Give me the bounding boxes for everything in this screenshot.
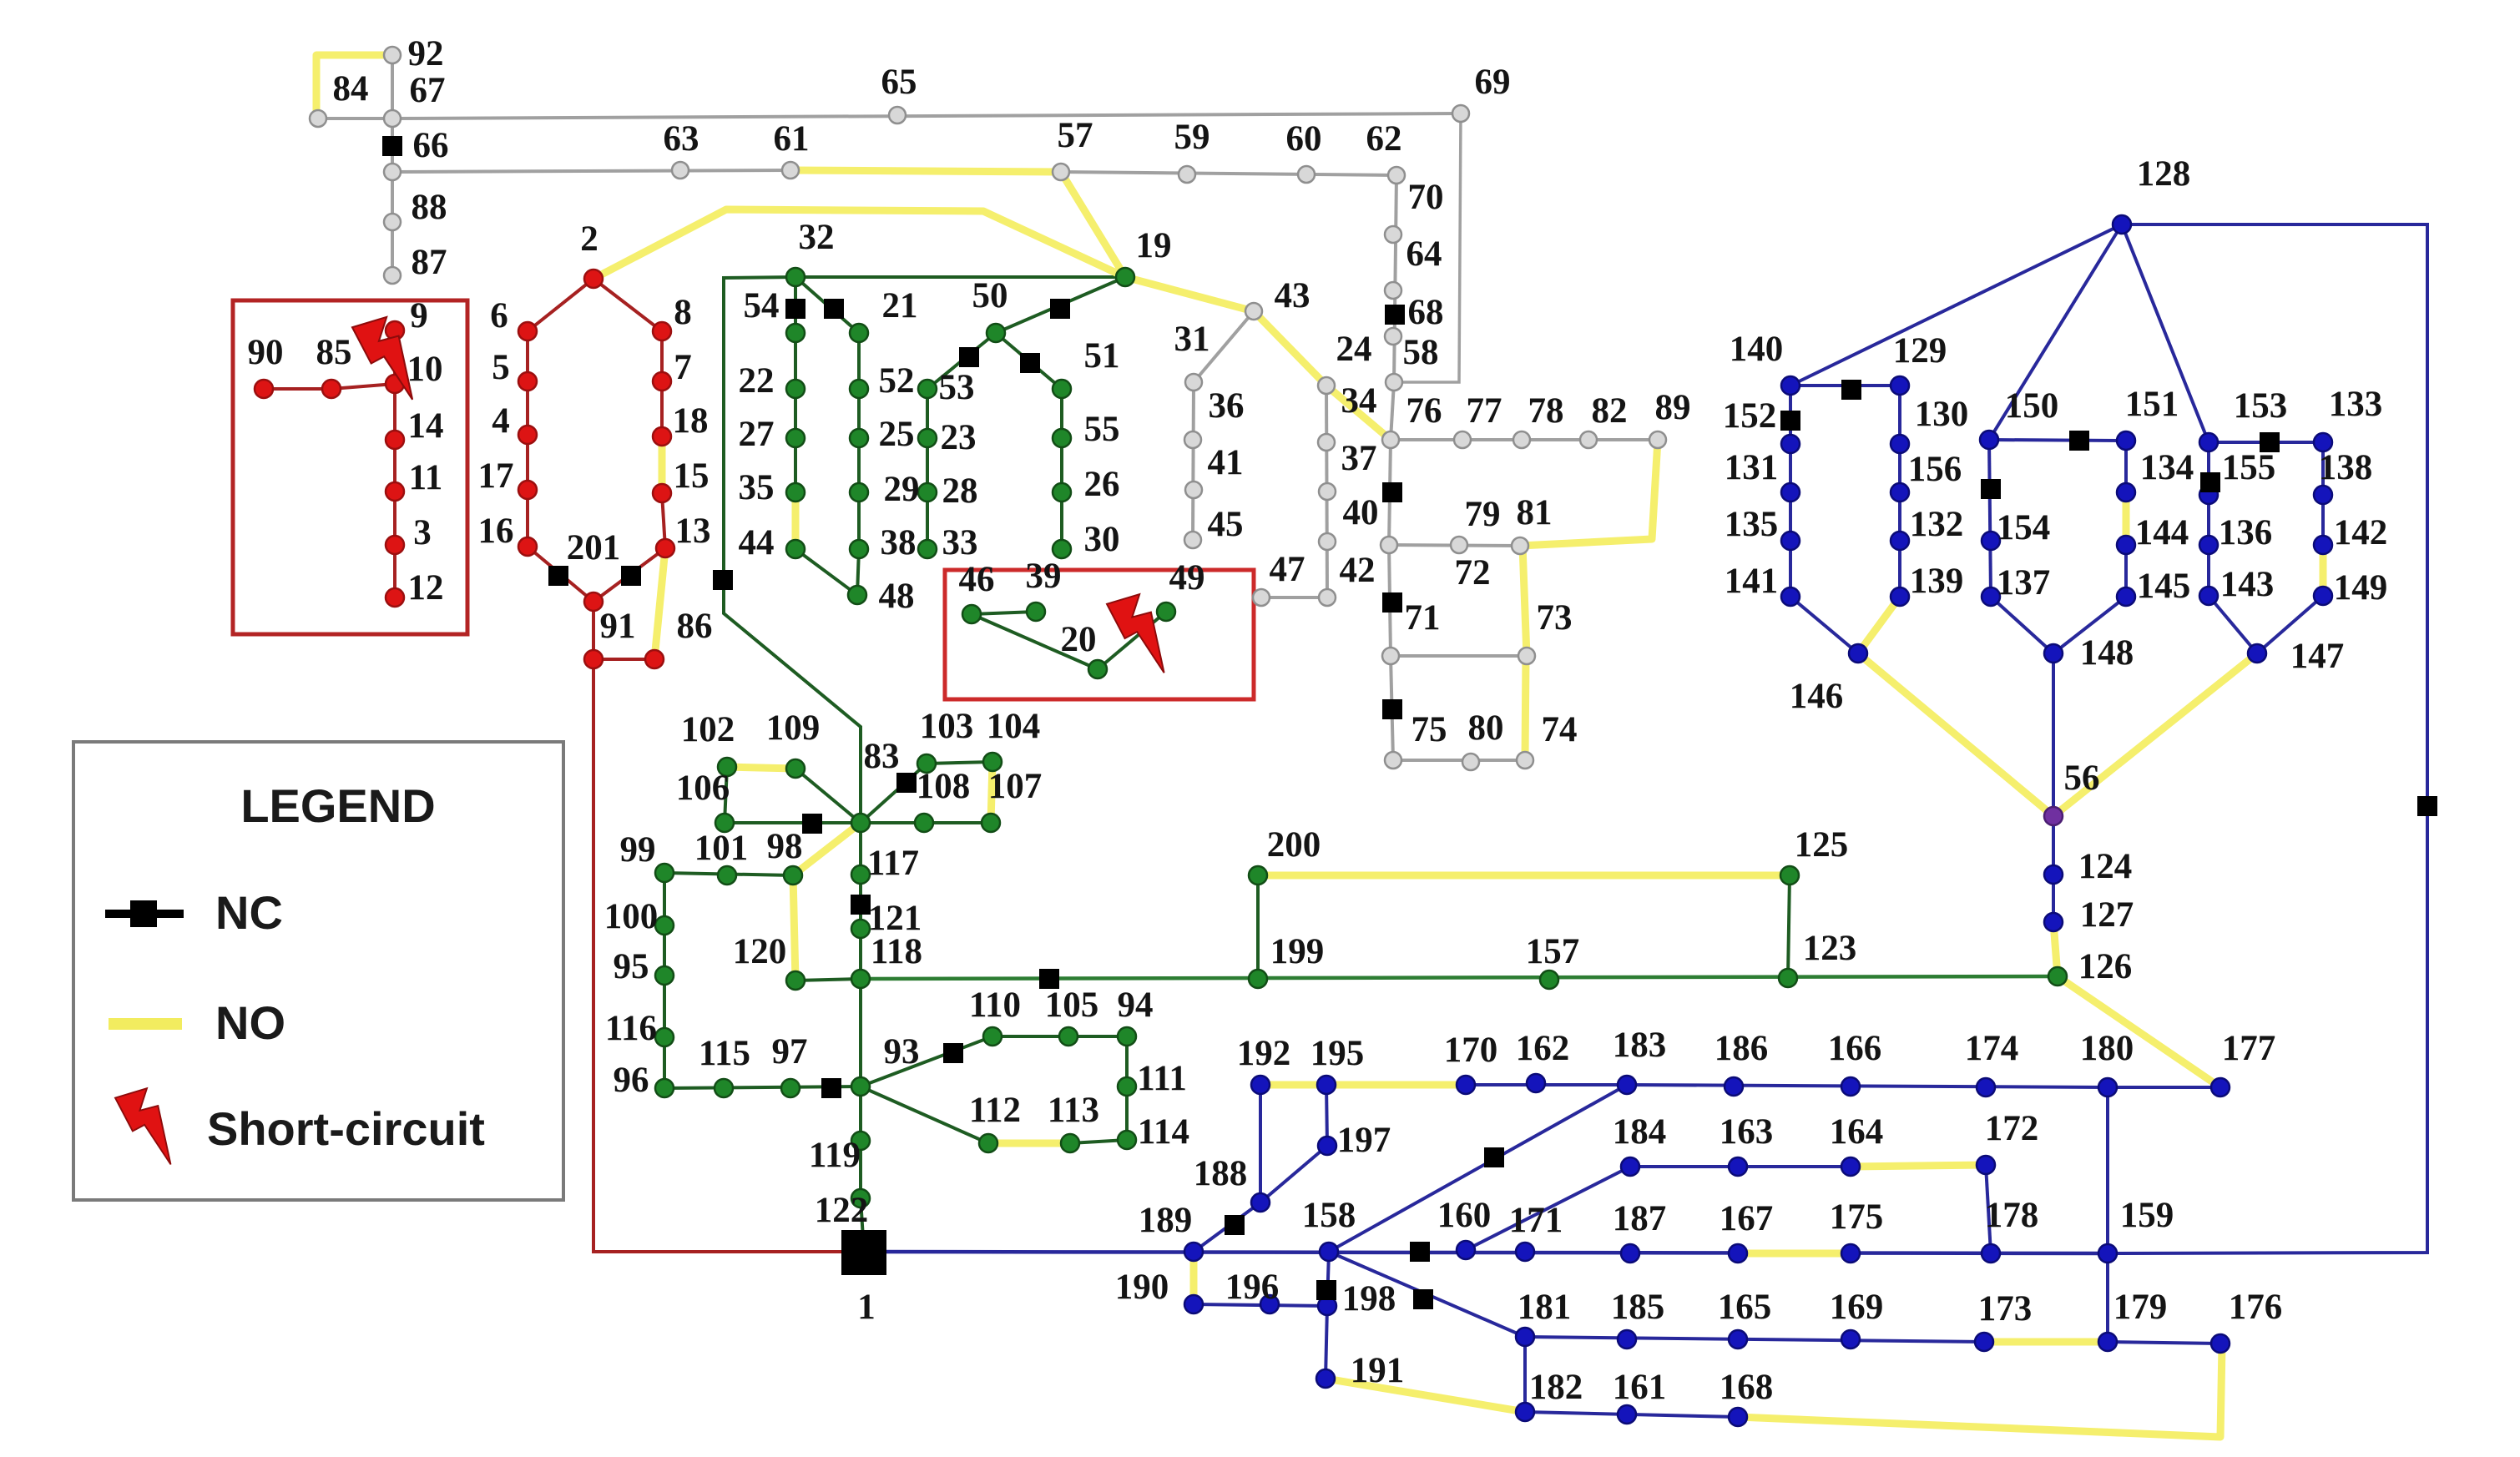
node 6: [518, 322, 537, 340]
wire 2-6: [528, 279, 593, 331]
wire 56-124: [2052, 816, 2055, 875]
node 27: [786, 429, 805, 447]
wire NO tie: [1326, 1081, 1466, 1089]
node 191: [1316, 1369, 1335, 1388]
wire 15-13: [662, 493, 665, 548]
node 65: [889, 107, 906, 124]
svg-text:17: 17: [478, 456, 514, 496]
wire 151-134: [2124, 441, 2128, 492]
wire 159-179: [2106, 1253, 2109, 1342]
wire 110-94: [992, 1035, 1127, 1038]
svg-text:200: 200: [1267, 825, 1321, 865]
node 133: [2314, 433, 2332, 451]
wire NO tie: [659, 436, 666, 493]
node 168: [1729, 1408, 1747, 1426]
NC 37: [1382, 482, 1402, 502]
node 73: [1518, 648, 1535, 664]
svg-text:116: 116: [605, 1009, 657, 1048]
svg-text:139: 139: [1910, 562, 1964, 601]
node 180: [2098, 1078, 2117, 1097]
wire 62-58: [1394, 175, 1396, 382]
wire 120-118: [795, 979, 861, 981]
svg-text:32: 32: [799, 218, 835, 257]
svg-text:66: 66: [413, 126, 449, 165]
wire 57-62: [1061, 172, 1396, 175]
svg-text:183: 183: [1613, 1026, 1667, 1065]
wire NO tie: [1851, 1165, 1986, 1167]
svg-text:20: 20: [1061, 620, 1097, 659]
svg-text:15: 15: [674, 456, 710, 496]
svg-text:150: 150: [2005, 386, 2059, 426]
node 51: [1053, 380, 1071, 398]
node 124: [2044, 865, 2063, 884]
wire NO tie: [1326, 1379, 1525, 1412]
wire 75-74: [1393, 759, 1525, 762]
short-circuit zone box 2: [945, 570, 1254, 699]
wire 91-91b: [593, 658, 654, 661]
node 46: [962, 605, 981, 623]
wire NO tie: [1061, 172, 1125, 277]
svg-text:99: 99: [620, 830, 656, 870]
node 91: [584, 650, 603, 668]
node 185: [1618, 1330, 1636, 1349]
svg-text:79: 79: [1465, 495, 1501, 534]
node 126: [2048, 967, 2067, 986]
node 52: [850, 380, 868, 398]
svg-text:122: 122: [815, 1191, 869, 1230]
wire 181-182: [1523, 1337, 1527, 1412]
node 117: [851, 865, 870, 884]
wire hub-108: [861, 821, 924, 824]
wire 188-189: [1194, 1202, 1260, 1252]
node 192: [1251, 1076, 1270, 1094]
wire 149-147: [2257, 596, 2323, 653]
node n68b: [1385, 328, 1401, 345]
svg-text:169: 169: [1830, 1288, 1884, 1327]
svg-text:80: 80: [1468, 708, 1504, 748]
wire 50-51: [996, 333, 1062, 389]
wire 67-92: [391, 55, 394, 118]
wire 138-142: [2321, 495, 2325, 545]
wire 32-21: [795, 277, 859, 333]
wire a1-35: [794, 333, 797, 492]
svg-text:163: 163: [1720, 1112, 1774, 1152]
svg-text:62: 62: [1366, 119, 1402, 159]
node 34: [1318, 434, 1335, 451]
node 189: [1184, 1243, 1203, 1261]
node 35: [786, 483, 805, 502]
node 3: [386, 536, 404, 554]
NC 188-189: [1225, 1215, 1245, 1235]
wire 200-199: [1256, 875, 1260, 979]
node 56: [2044, 807, 2063, 825]
node 84: [310, 110, 326, 127]
wire 67-69: [392, 113, 1461, 118]
svg-text:59: 59: [1174, 118, 1210, 157]
node 183: [1618, 1076, 1636, 1094]
svg-text:6: 6: [490, 296, 508, 335]
svg-text:162: 162: [1516, 1029, 1570, 1068]
node 38: [850, 540, 868, 558]
svg-text:63: 63: [664, 119, 699, 159]
node 199: [1249, 970, 1267, 988]
node 88: [384, 214, 401, 230]
svg-text:196: 196: [1225, 1268, 1280, 1307]
svg-text:Short-circuit: Short-circuit: [207, 1102, 485, 1155]
wire 103-104: [927, 762, 992, 764]
node 200: [1249, 866, 1267, 885]
svg-text:87: 87: [412, 243, 447, 282]
wire 84-67: [318, 117, 392, 120]
svg-text:123: 123: [1803, 929, 1857, 968]
wire 6-16: [526, 331, 529, 547]
wire 8-18: [660, 331, 664, 436]
svg-text:74: 74: [1542, 710, 1578, 749]
node 181: [1516, 1328, 1534, 1346]
node hub: [851, 814, 870, 832]
svg-text:43: 43: [1275, 276, 1311, 315]
wire 170-183: [1466, 1083, 1627, 1086]
svg-text:186: 186: [1715, 1029, 1769, 1068]
wire: [861, 1198, 864, 1252]
node 99: [655, 864, 674, 882]
node 57: [1053, 164, 1069, 180]
NC 158-183: [1484, 1147, 1504, 1167]
svg-text:84: 84: [333, 69, 369, 108]
svg-text:168: 168: [1720, 1368, 1774, 1407]
svg-text:124: 124: [2078, 847, 2133, 886]
node 138: [2314, 486, 2332, 504]
wire NO tie: [727, 767, 795, 769]
node 61: [782, 162, 799, 179]
wire: [724, 277, 861, 823]
wire 13-201v: [593, 548, 665, 602]
svg-text:107: 107: [988, 767, 1043, 806]
wire 150-137: [1989, 440, 1991, 597]
NC 128-159: [2417, 796, 2437, 816]
NC 66: [382, 136, 402, 156]
svg-text:86: 86: [677, 607, 713, 646]
svg-text:110: 110: [969, 986, 1021, 1025]
svg-text:177: 177: [2222, 1029, 2276, 1068]
svg-text:182: 182: [1529, 1368, 1583, 1407]
wire 9-12: [393, 330, 396, 597]
wire 153j-133: [2209, 441, 2323, 444]
node 36: [1184, 431, 1201, 448]
svg-text:149: 149: [2334, 568, 2388, 608]
wire 144-145: [2124, 545, 2128, 597]
node 153j: [2199, 433, 2218, 451]
node 167: [1729, 1244, 1747, 1263]
svg-text:154: 154: [1997, 508, 2051, 547]
wire 124-127: [2052, 875, 2055, 922]
svg-text:LEGEND: LEGEND: [240, 779, 435, 832]
NC 155: [2200, 472, 2220, 492]
wire 184-164: [1630, 1165, 1851, 1168]
node 70: [1385, 226, 1401, 243]
wire 32-a1: [794, 277, 797, 333]
svg-text:184: 184: [1613, 1112, 1667, 1152]
node 196: [1260, 1295, 1279, 1313]
svg-text:82: 82: [1592, 391, 1628, 431]
svg-text:103: 103: [920, 707, 974, 746]
wire 198-191: [1326, 1306, 1327, 1379]
svg-text:44: 44: [739, 523, 775, 562]
node m1: [2199, 486, 2218, 504]
node 150: [1980, 431, 1998, 449]
node 118: [851, 970, 870, 988]
node 108: [915, 814, 933, 832]
node 48: [848, 586, 866, 604]
svg-text:104: 104: [987, 707, 1041, 746]
wire 38-48: [857, 549, 859, 595]
svg-text:21: 21: [882, 286, 918, 325]
wire 93-110: [861, 1036, 992, 1086]
node 135: [1781, 532, 1800, 550]
wire 197-195: [1326, 1085, 1327, 1146]
svg-text:19: 19: [1136, 226, 1172, 265]
wire 158-198: [1327, 1252, 1329, 1306]
svg-text:23: 23: [941, 418, 977, 457]
node 97: [781, 1079, 800, 1097]
svg-text:112: 112: [969, 1091, 1021, 1130]
node 78: [1513, 431, 1530, 448]
wire NO tie: [991, 762, 992, 823]
svg-text:175: 175: [1830, 1197, 1884, 1237]
node 107: [982, 814, 1000, 832]
wire 96-93: [664, 1086, 861, 1088]
node 67: [384, 110, 401, 127]
node 143: [2199, 587, 2218, 605]
wire NO tie: [2320, 545, 2327, 596]
node 156: [1891, 483, 1909, 502]
node 31: [1185, 374, 1202, 391]
wire 46-20: [972, 614, 1098, 669]
svg-text:195: 195: [1311, 1034, 1365, 1073]
node 175: [1841, 1244, 1860, 1263]
NC 86: [713, 570, 733, 590]
svg-text:188: 188: [1194, 1154, 1248, 1193]
NC 13-201: [621, 566, 641, 586]
svg-text:51: 51: [1084, 336, 1120, 376]
svg-text:70: 70: [1408, 178, 1444, 217]
node 76: [1382, 431, 1399, 448]
svg-text:134: 134: [2140, 448, 2194, 487]
svg-text:132: 132: [1910, 505, 1964, 544]
node 187: [1621, 1244, 1639, 1263]
node 142: [2314, 536, 2332, 554]
node 45: [1184, 532, 1201, 548]
node 149: [2314, 587, 2332, 605]
node 163: [1729, 1157, 1747, 1176]
node 112: [979, 1134, 997, 1152]
NC 118-199: [1039, 969, 1059, 989]
node 114: [1118, 1131, 1136, 1149]
wire 143-147: [2209, 596, 2257, 653]
node 129: [1891, 376, 1909, 395]
svg-text:89: 89: [1655, 388, 1691, 427]
node 8: [653, 322, 671, 340]
wire 43-31: [1194, 311, 1254, 382]
svg-text:4: 4: [492, 401, 510, 441]
node 41: [1185, 481, 1202, 498]
svg-text:199: 199: [1270, 932, 1325, 971]
svg-text:40: 40: [1343, 493, 1379, 532]
wire 51-30: [1060, 389, 1063, 549]
NC 140-129: [1841, 380, 1861, 400]
svg-text:198: 198: [1342, 1279, 1396, 1318]
svg-text:7: 7: [674, 348, 692, 387]
wire NO tie: [316, 55, 392, 117]
wire 106-hub: [725, 821, 861, 824]
node 19: [1116, 268, 1134, 286]
svg-text:12: 12: [408, 568, 444, 608]
wire 140-141: [1789, 386, 1792, 597]
svg-text:37: 37: [1341, 439, 1377, 478]
wire 192-188: [1259, 1085, 1262, 1202]
node 55: [1053, 429, 1071, 447]
legend NO symbol: [109, 1018, 182, 1030]
svg-text:170: 170: [1444, 1031, 1498, 1070]
svg-text:64: 64: [1406, 234, 1442, 274]
svg-text:120: 120: [733, 932, 787, 971]
svg-text:152: 152: [1723, 396, 1777, 436]
node 93: [851, 1077, 870, 1096]
wire 180-159: [2106, 1087, 2109, 1253]
node 1 (substation): [841, 1230, 886, 1275]
svg-text:8: 8: [674, 293, 692, 332]
wire NO tie: [1525, 656, 1526, 760]
node 44: [786, 540, 805, 558]
wire NO tie: [1520, 440, 1658, 546]
node L1: [1781, 435, 1800, 453]
svg-text:159: 159: [2120, 1196, 2174, 1235]
svg-text:133: 133: [2329, 385, 2383, 424]
svg-text:13: 13: [675, 512, 711, 551]
svg-text:50: 50: [972, 276, 1008, 315]
svg-text:114: 114: [1138, 1112, 1189, 1152]
svg-text:33: 33: [942, 523, 978, 562]
svg-text:102: 102: [681, 710, 735, 749]
node 161: [1618, 1405, 1636, 1424]
wire 160-184: [1466, 1167, 1630, 1250]
NC 97-93: [821, 1078, 841, 1098]
wire 20-49: [1098, 612, 1166, 669]
node 17: [518, 481, 537, 499]
svg-text:146: 146: [1790, 677, 1844, 716]
svg-text:27: 27: [739, 415, 775, 454]
node 109: [786, 759, 805, 778]
svg-text:10: 10: [407, 350, 443, 389]
svg-text:91: 91: [600, 607, 636, 646]
wire 117-93: [859, 875, 862, 1086]
svg-text:156: 156: [1908, 450, 1962, 489]
wire 46-39: [972, 612, 1036, 614]
node 130: [1891, 435, 1909, 453]
node 91b: [645, 650, 664, 668]
NC 16-201: [548, 566, 568, 586]
wire NO tie: [1738, 1345, 2222, 1437]
svg-text:73: 73: [1537, 598, 1573, 638]
svg-text:68: 68: [1408, 293, 1444, 332]
svg-text:147: 147: [2290, 637, 2345, 676]
node 136: [2199, 536, 2218, 554]
node 172: [1977, 1156, 1995, 1174]
node 96: [655, 1079, 674, 1097]
NC 158-160: [1410, 1242, 1430, 1262]
node 11: [386, 482, 404, 501]
svg-text:49: 49: [1169, 558, 1205, 597]
node 71: [1382, 648, 1399, 664]
wire 201v-91: [592, 602, 595, 659]
node 119: [851, 1132, 870, 1150]
svg-text:47: 47: [1270, 550, 1305, 589]
node 50: [987, 324, 1005, 342]
NC 153-133: [2260, 432, 2280, 452]
node 176: [2211, 1334, 2230, 1353]
wire 128-150: [1989, 224, 2122, 440]
wire hub-117: [859, 823, 862, 875]
wire 76-89: [1391, 438, 1658, 441]
node 79j: [1381, 537, 1397, 553]
svg-text:1: 1: [857, 1288, 876, 1327]
node 49: [1157, 602, 1175, 621]
node 115: [715, 1079, 733, 1097]
node 169: [1841, 1330, 1860, 1349]
svg-text:88: 88: [412, 188, 447, 227]
svg-text:101: 101: [694, 829, 749, 868]
node 164: [1841, 1157, 1860, 1176]
svg-text:197: 197: [1337, 1121, 1391, 1160]
svg-text:67: 67: [410, 71, 446, 110]
node 33: [918, 540, 937, 558]
node 146: [1849, 644, 1867, 663]
wire 2-8: [593, 279, 662, 331]
svg-text:181: 181: [1518, 1288, 1572, 1327]
svg-text:38: 38: [881, 523, 917, 562]
wire 90-85: [264, 387, 331, 391]
node 157: [1540, 970, 1558, 989]
svg-text:78: 78: [1528, 391, 1564, 431]
svg-text:126: 126: [2078, 947, 2133, 986]
node 100: [655, 916, 674, 935]
svg-text:155: 155: [2222, 448, 2276, 487]
svg-text:36: 36: [1209, 386, 1245, 426]
node 4: [518, 426, 537, 444]
svg-text:29: 29: [884, 470, 920, 509]
svg-text:54: 54: [744, 286, 780, 325]
NC 106-83: [802, 814, 822, 834]
node 95: [655, 966, 674, 985]
node 69: [1452, 105, 1469, 122]
wire 153j-143: [2207, 442, 2210, 596]
wire NO tie: [1738, 1250, 1851, 1258]
wire 158-181: [1329, 1252, 1525, 1337]
svg-text:90: 90: [248, 333, 284, 372]
wire: [2108, 224, 2427, 1253]
wire 19-50: [996, 277, 1125, 333]
short-circuit bolt box2: [1107, 594, 1164, 673]
wire 42-47: [1261, 596, 1327, 599]
svg-text:109: 109: [766, 708, 821, 748]
svg-text:136: 136: [2219, 513, 2273, 552]
wire 76-79j: [1389, 440, 1391, 545]
node 28: [918, 483, 937, 502]
wire 188-197: [1260, 1146, 1327, 1202]
node 104: [983, 753, 1002, 771]
svg-text:153: 153: [2234, 386, 2288, 426]
node 75: [1385, 752, 1401, 769]
